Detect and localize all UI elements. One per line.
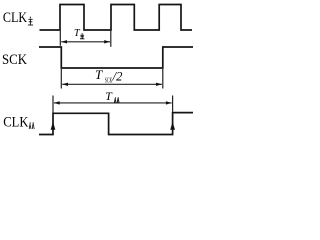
up arrowhead on CLK从 left rising edge [51,122,56,130]
T从 right arrowhead [166,101,172,104]
label T从 [105,89,119,103]
T从 extension line left [52,96,54,113]
svg-text:SCK: SCK [105,77,112,85]
svg-text:CLK: CLK [3,114,29,130]
T主 dimension line [61,41,110,43]
T主 extension line right [110,31,112,47]
CLK从 waveform [39,113,193,135]
svg-text:CLK: CLK [3,10,28,26]
T从 extension line right [172,96,174,112]
T主 left arrowhead [61,40,67,43]
T主 extension line left [59,31,61,46]
svg-text:/2: /2 [112,70,123,84]
T从 dimension line [54,102,172,104]
T_SCK/2 right arrowhead [156,83,162,86]
T_SCK/2 left arrowhead [62,83,68,86]
svg-text:SCK: SCK [2,52,28,68]
label T_SCK/2 [95,67,122,84]
T_SCK/2 dimension line [62,83,162,85]
T_SCK/2 extension line right [162,69,164,89]
T主 right arrowhead [104,40,110,43]
CLK主 waveform [40,5,193,31]
label CLK主 (master clock) [3,10,33,26]
label T主 [74,28,84,39]
T_SCK/2 extension line left [60,69,62,89]
label CLK从 (slave clock) [3,114,34,130]
SCK waveform [39,47,193,68]
up arrowhead on CLK从 right rising edge [170,122,175,130]
svg-text:T: T [95,67,103,82]
T从 left arrowhead [54,101,60,104]
